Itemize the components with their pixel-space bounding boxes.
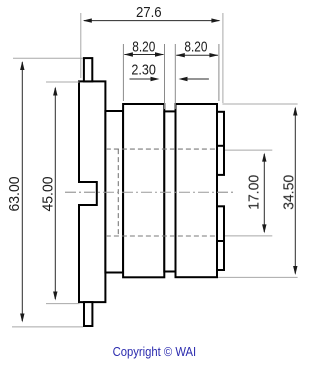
svg-text:63.00: 63.00: [6, 177, 23, 212]
top shaft stub: [84, 58, 92, 81]
svg-text:27.6: 27.6: [136, 4, 162, 21]
bore hidden line bottom: [106, 235, 217, 237]
upper terminal tab: [217, 112, 224, 175]
dimension 17.00: [225, 150, 272, 236]
upper tab divider: [217, 145, 224, 147]
centerline over fills: [65, 191, 236, 193]
svg-text:17.00: 17.00: [246, 175, 263, 210]
dimension 34.50: [218, 104, 298, 277]
dimension 8.20 right: [175, 38, 219, 109]
dimension 45.00: [40, 82, 80, 304]
dimension 2.30: [130, 62, 209, 82]
dimension 63.00: [6, 58, 83, 327]
svg-text:8.20: 8.20: [132, 39, 155, 56]
svg-text:2.30: 2.30: [131, 62, 156, 79]
svg-text:34.50: 34.50: [280, 175, 297, 210]
redraw bore dashes over hub fill: [106, 149, 217, 236]
spacer between rings: [164, 111, 175, 271]
bore hidden line top: [106, 148, 217, 150]
svg-text:Copyright © WAI: Copyright © WAI: [113, 344, 197, 359]
svg-text:45.00: 45.00: [40, 177, 57, 212]
bore hidden line left end: [117, 149, 119, 236]
svg-text:8.20: 8.20: [184, 38, 207, 55]
dimension 8.20 left: [123, 39, 164, 110]
slip ring 2: [176, 104, 218, 277]
dimension 27.6: [81, 4, 223, 103]
hub section: [105, 111, 123, 273]
bottom shaft stub: [84, 302, 92, 326]
lower tab divider: [217, 240, 224, 242]
slip ring 1: [123, 104, 164, 277]
centerline: [65, 191, 236, 193]
flange outline: [79, 81, 105, 302]
lower terminal tab: [217, 206, 224, 270]
